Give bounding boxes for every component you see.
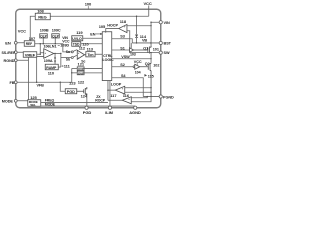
block TSD 120	[72, 42, 90, 47]
diode 114 bootstrap	[135, 16, 147, 43]
wire Q2 source to PGND	[143, 96, 159, 98]
svg-text:RGND: RGND	[4, 59, 15, 63]
wire VIN rail	[151, 22, 159, 47]
pin SS-/REF	[1, 51, 17, 55]
svg-text:VCC: VCC	[134, 60, 142, 64]
wire SS-/REF to VREF	[17, 51, 23, 53]
svg-text:113: 113	[87, 46, 94, 51]
pin PGD bottom	[83, 106, 92, 115]
wire ZX output	[108, 99, 122, 101]
svg-text:ROCP: ROCP	[95, 98, 106, 102]
pin MODE	[2, 99, 17, 103]
svg-text:S3: S3	[120, 35, 124, 39]
svg-text:AGND: AGND	[129, 110, 141, 115]
wire amp output	[54, 52, 61, 54]
comparator 112	[77, 45, 86, 63]
wire FREQ bus	[41, 99, 108, 103]
VCC top supply	[143, 1, 151, 16]
svg-text:-: -	[129, 101, 130, 105]
wire TSD out	[81, 43, 103, 45]
switch Sb	[66, 55, 77, 61]
svg-text:VCC: VCC	[62, 39, 70, 43]
svg-text:101: 101	[153, 48, 159, 52]
svg-text:SW: SW	[164, 51, 170, 55]
comparator LOOP 117	[110, 83, 125, 98]
wire VCC rail to REG	[50, 15, 149, 17]
svg-text:100: 100	[85, 2, 92, 7]
wire PGD drain to pin	[86, 95, 88, 106]
svg-text:OLP: OLP	[40, 34, 47, 38]
svg-text:Sa: Sa	[66, 50, 70, 54]
wire RGND to VREF bottom	[17, 59, 28, 61]
wires LOOP inputs	[125, 88, 151, 93]
svg-text:VB: VB	[142, 39, 147, 43]
svg-text:108: 108	[37, 8, 44, 13]
svg-text:VCC: VCC	[18, 28, 26, 33]
svg-text:REG: REG	[38, 14, 46, 19]
wire UVLO out	[83, 37, 103, 39]
block 109C clamp	[52, 28, 61, 44]
svg-text:Sb: Sb	[66, 58, 70, 62]
wire S4	[112, 74, 144, 97]
wire HOCP - input down to SW	[127, 31, 130, 53]
svg-text:OLP: OLP	[52, 34, 59, 38]
svg-text:REF: REF	[26, 42, 32, 46]
transistor Q1 101	[134, 46, 159, 53]
block 110 ramp	[45, 64, 58, 75]
svg-text:S4: S4	[121, 74, 126, 78]
svg-text:TSD: TSD	[73, 43, 80, 47]
node 111	[60, 53, 62, 67]
svg-text:LN1: LN1	[50, 45, 57, 49]
svg-text:HOCP: HOCP	[107, 23, 118, 27]
svg-text:109A: 109A	[44, 59, 53, 63]
svg-text:LOOP: LOOP	[111, 83, 122, 87]
wire EN to block 107	[17, 42, 24, 44]
pin FB	[10, 81, 18, 85]
svg-text:102: 102	[153, 63, 159, 67]
block UVLO 119	[72, 30, 84, 41]
block MODE SEL 125	[28, 95, 41, 107]
svg-text:VREF: VREF	[25, 52, 36, 57]
pin PGND	[159, 95, 174, 99]
svg-text:EN: EN	[5, 40, 11, 45]
svg-text:105: 105	[99, 24, 106, 29]
svg-text:109B: 109B	[40, 28, 49, 32]
pin EN	[5, 40, 17, 45]
svg-text:117: 117	[110, 93, 117, 98]
svg-text:PGND: PGND	[163, 95, 174, 99]
svg-text:VSW: VSW	[121, 55, 130, 59]
svg-text:PGD: PGD	[83, 110, 92, 115]
svg-text:VFB: VFB	[36, 84, 44, 88]
svg-text:118: 118	[120, 19, 127, 24]
switch Sa	[66, 50, 77, 54]
svg-text:SS-/REF: SS-/REF	[1, 51, 16, 55]
signal EN arrow	[90, 32, 102, 36]
svg-text:123: 123	[69, 80, 76, 85]
wire SW node	[130, 52, 160, 54]
wire S3 / VB bootstrap rail	[112, 35, 133, 43]
svg-text:Ton: Ton	[87, 53, 93, 57]
wire S1 ctrl to driver 103	[112, 46, 130, 50]
wire comparator to Ton	[85, 54, 86, 56]
wire FB / VFB net	[17, 82, 72, 87]
svg-text:PGD: PGD	[67, 90, 75, 94]
wire S2 ctrl to driver 104	[112, 63, 133, 67]
svg-text:MODE: MODE	[2, 99, 14, 103]
wire Ton to ctrl logic	[95, 53, 102, 55]
wire 107 output	[35, 44, 72, 52]
current source 109A	[44, 53, 56, 64]
svg-text:103: 103	[130, 53, 136, 57]
wire FB to PGD	[60, 82, 65, 91]
svg-text:UVLO: UVLO	[72, 37, 82, 41]
svg-text:107: 107	[29, 36, 36, 41]
svg-text:109D: 109D	[60, 44, 69, 48]
driver 103	[130, 43, 136, 57]
pin AGND	[129, 106, 141, 115]
svg-text:S2: S2	[120, 63, 124, 67]
transistor Q2 102	[140, 62, 160, 97]
labels VIN VCC into UVLO	[62, 36, 70, 44]
block Ton 113	[86, 46, 95, 57]
pin ILIM	[105, 81, 113, 115]
wire HOCP output	[106, 29, 119, 33]
svg-text:104: 104	[135, 70, 141, 74]
transistor 122 open drain	[77, 80, 88, 99]
wire REG output left and down (internal VCC rail)	[30, 16, 35, 41]
wire HOCP + input from VIN node	[127, 25, 151, 27]
wire MODE bus	[41, 102, 136, 106]
driver 104	[133, 60, 142, 74]
wire MODE to MODE SEL	[17, 100, 28, 102]
wire BST VB rail	[132, 39, 159, 44]
wires ZX inputs	[131, 97, 151, 102]
svg-text:119: 119	[76, 30, 83, 35]
svg-text:111: 111	[64, 64, 71, 69]
svg-text:122: 122	[78, 80, 85, 85]
pin RGND	[4, 59, 18, 63]
svg-text:-: -	[124, 29, 125, 33]
svg-text:FB: FB	[10, 81, 15, 85]
op-amp 106 error amplifier	[43, 44, 53, 58]
wires UVP OVP to ctrl logic	[84, 68, 102, 72]
block CTRL LOGIC 105	[99, 24, 114, 81]
regulator REG 108	[35, 8, 50, 20]
svg-text:VCC: VCC	[143, 1, 151, 6]
IC outer box 100	[16, 9, 161, 108]
svg-text:Q2: Q2	[145, 62, 150, 66]
block PGD 123	[65, 80, 77, 94]
svg-text:110: 110	[48, 70, 55, 75]
svg-text:VIN: VIN	[164, 21, 170, 25]
label 109D	[58, 45, 60, 47]
block UVP	[77, 61, 85, 71]
svg-text:BST: BST	[164, 42, 172, 46]
svg-text:115: 115	[148, 74, 154, 78]
svg-text:109C: 109C	[52, 28, 61, 32]
block OVP	[77, 71, 84, 75]
wire amp - input from FB rail	[37, 56, 44, 82]
svg-text:EN: EN	[90, 32, 95, 36]
pin BST	[159, 41, 172, 45]
label 100	[85, 2, 92, 10]
svg-text:-: -	[78, 55, 79, 59]
wire to amp + input	[40, 44, 44, 53]
svg-text:OVP: OVP	[78, 71, 84, 75]
pin SW	[159, 51, 170, 55]
block VREF	[23, 52, 37, 58]
wire LOOP output	[108, 89, 115, 91]
wire FB up to UVP OVP	[71, 68, 73, 82]
wire rail RGND down to MODE SEL	[27, 57, 29, 100]
comparator ZX ROCP 116	[95, 93, 131, 105]
svg-text:SEL: SEL	[30, 103, 36, 107]
comparator HOCP 118	[107, 19, 127, 33]
svg-text:RAMP: RAMP	[46, 66, 57, 70]
pin VIN	[159, 21, 170, 25]
svg-text:121: 121	[78, 61, 85, 66]
block 107 soft start	[24, 36, 36, 47]
wire VREF output to amp node	[37, 53, 41, 55]
wire VSW sense	[112, 55, 152, 60]
svg-text:ILIM: ILIM	[105, 110, 113, 115]
block 109B clamp	[40, 28, 49, 44]
